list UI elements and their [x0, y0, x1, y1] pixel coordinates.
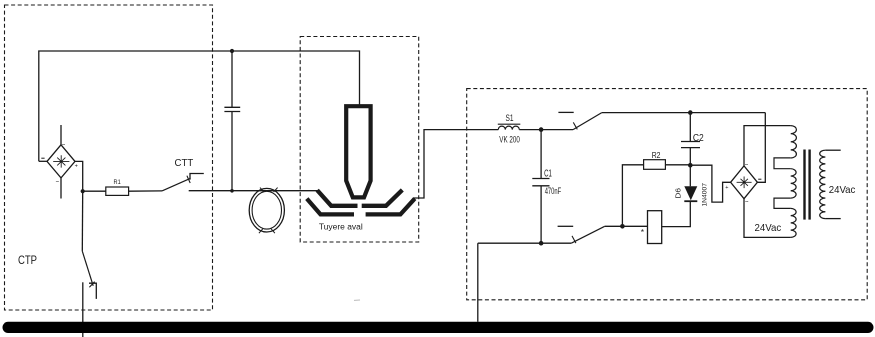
relay switch lower blade tick [572, 236, 576, 243]
svg-text:R2: R2 [652, 150, 661, 160]
relay switch lower fixed bar [558, 225, 574, 227]
node S1 / C1 junction [539, 127, 544, 132]
bridge rectifier main (diamond) [731, 166, 758, 199]
relay switch upper blade tick [573, 122, 577, 129]
wire nozzle to control box [414, 130, 499, 198]
bridge CTP top terminal stub [60, 125, 62, 145]
transformer secondary bottom lead [825, 218, 840, 220]
svg-text:S1: S1 [506, 113, 514, 124]
wire R2 right to node [665, 164, 690, 166]
nozzle lower-right piece [366, 199, 415, 215]
node R1 junction [81, 189, 85, 193]
svg-text:R1: R1 [114, 179, 122, 186]
nozzle upper-right piece [362, 190, 403, 206]
wire top rail down to bridge right corner [757, 113, 765, 183]
ground bus bar [3, 322, 874, 333]
wire node to R1 [83, 190, 106, 192]
node top rail / capacitor junction [230, 49, 234, 53]
resistor R1 [106, 187, 129, 195]
svg-text:CTT: CTT [175, 158, 194, 169]
inductor S1 ferrite choke [498, 126, 519, 129]
wire upper switch to transformer (top rail) [602, 112, 766, 114]
transformer primary tap U2 [774, 198, 791, 208]
nozzle lower-left piece [307, 199, 354, 215]
bridge CTP minus mark [41, 157, 44, 159]
resistor R2 [644, 160, 666, 170]
bridge main minus mark [758, 178, 761, 180]
electrode (torch) body [346, 106, 370, 197]
transformer primary winding section 2 [791, 169, 796, 198]
wire bridge right corner down to R1 node [75, 161, 83, 191]
wire node down to CTP switch [81, 191, 83, 251]
svg-text:470nF: 470nF [545, 186, 562, 196]
stray faint mark [354, 299, 360, 301]
wire lower rail [478, 242, 572, 244]
switch CTT fixed hook contact [190, 174, 204, 180]
svg-text:+: + [725, 185, 728, 191]
svg-text:C1: C1 [544, 169, 552, 180]
svg-text:24Vac: 24Vac [829, 184, 856, 196]
wire diode cathode to relay coil [662, 201, 691, 226]
relay switch upper blade [573, 113, 602, 130]
node C2 top junction [688, 110, 693, 115]
toroid outer ring [249, 188, 284, 232]
transformer primary winding section 3 [791, 208, 796, 237]
diode D6 cathode bar [684, 200, 697, 202]
svg-text:~: ~ [745, 200, 749, 206]
svg-text:+: + [75, 164, 78, 170]
svg-text:24Vac: 24Vac [755, 222, 782, 234]
svg-text:VK 200: VK 200 [499, 134, 520, 144]
relay switch upper fixed bar [558, 111, 573, 113]
wire top rail left box [39, 51, 360, 161]
svg-text:Tuyere aval: Tuyere aval [319, 222, 363, 231]
svg-text:1N4007: 1N4007 [701, 183, 708, 207]
control enclosure dashed box [467, 89, 868, 300]
switch CTT blade [162, 178, 191, 191]
CTP enclosure dashed box [5, 5, 213, 310]
svg-text:*: * [641, 227, 645, 237]
wire stub to bridge left corner [39, 160, 47, 162]
svg-text:D6: D6 [674, 188, 683, 199]
transformer secondary winding [820, 150, 826, 218]
toroid bottom ticks [259, 229, 275, 234]
wire node to relay coil [622, 225, 647, 227]
capacitor C1 [532, 130, 549, 244]
svg-text:~: ~ [62, 143, 66, 149]
transformer secondary top lead [825, 149, 840, 151]
relay switch upper: wire to blade [541, 129, 573, 131]
switch CTP blade [82, 251, 93, 286]
transformer core bar right [808, 150, 810, 220]
wire bridge top corner to primary top [744, 126, 791, 166]
node R2 / relay branch junction [620, 224, 625, 229]
svg-text:~: ~ [745, 163, 749, 169]
inductor S1 core bar [498, 123, 521, 125]
wire CTP lower terminal to ground [82, 282, 84, 337]
switch CTP blade tick [89, 282, 94, 288]
bridge CTP asterisk symbol [53, 155, 69, 167]
wire bridge bottom corner to primary bottom [744, 199, 791, 238]
capacitor (coupling, unlabeled) [224, 51, 240, 191]
wire node to bridge left corner (staircase) [690, 165, 730, 202]
diode D6 anode wire [689, 165, 691, 186]
nozzle upper-left piece [317, 190, 357, 206]
node C1 bottom junction [539, 241, 544, 246]
Tuyere aval enclosure dashed box [300, 37, 419, 243]
wire R1 to CTT switch [129, 190, 162, 192]
switch CTP fixed hook contact [89, 283, 96, 299]
toroid top ticks [260, 188, 278, 192]
bridge main asterisk symbol [737, 177, 752, 189]
wire S1 to node [519, 129, 541, 131]
node C2 bottom / R2 / diode junction [688, 163, 693, 168]
svg-text:~: ~ [56, 180, 60, 186]
bridge rectifier CTP (diamond) [47, 145, 75, 178]
diode D6 body [684, 186, 697, 200]
capacitor C2 [681, 113, 700, 166]
svg-text:CTP: CTP [18, 253, 37, 267]
toroid inner ring [252, 191, 281, 229]
relay switch lower blade [571, 226, 604, 243]
wire R2 left branch [622, 165, 643, 227]
wire lower switch to node [605, 225, 623, 227]
switch CTT blade tick [187, 176, 190, 183]
transformer core bar left [803, 150, 805, 220]
transformer primary tap U1 [774, 158, 791, 169]
transformer primary winding section 1 [791, 126, 797, 158]
relay coil K [648, 211, 662, 244]
node capacitor bottom junction [230, 189, 234, 193]
wire lower rail down to ground [477, 243, 479, 322]
svg-text:C2: C2 [693, 132, 704, 144]
wire CTT to nozzle (lower rail) [189, 190, 318, 192]
bridge CTP bottom terminal stub [60, 178, 62, 199]
